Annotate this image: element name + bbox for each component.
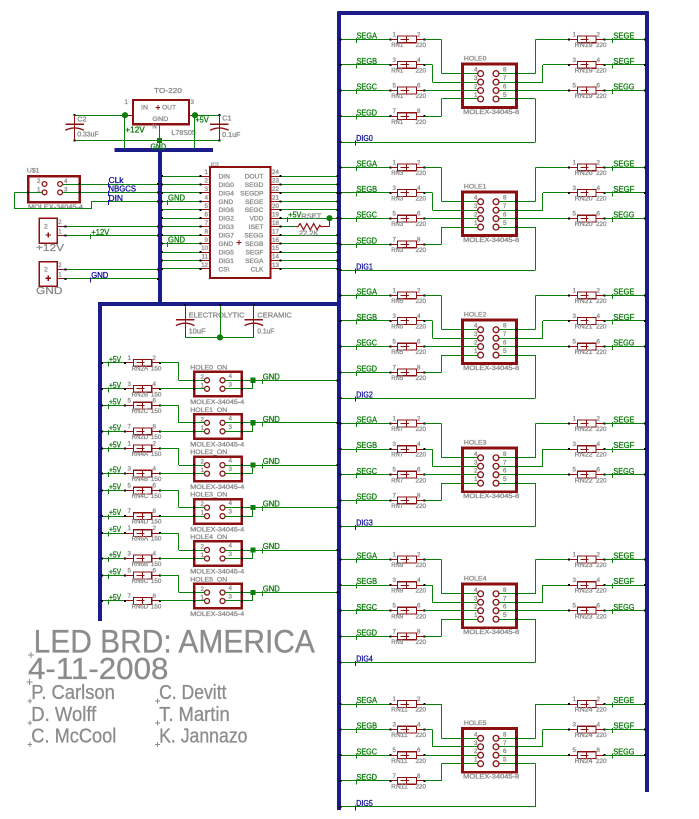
svg-text:RN11: RN11 <box>391 708 408 714</box>
svg-text:3: 3 <box>393 185 397 192</box>
svg-text:220: 220 <box>416 171 427 177</box>
wire: HOLE0 pin5 to DIG0 net <box>340 98 536 143</box>
wire: HOLE2 pin5 to DIG2 net <box>340 354 536 399</box>
svg-text:MOLEX-34045-8: MOLEX-34045-8 <box>463 237 520 244</box>
svg-text:220: 220 <box>416 222 427 228</box>
resistor RN1 220 (pins 7-8) group 0 <box>340 108 427 126</box>
svg-text:7: 7 <box>393 773 397 780</box>
svg-text:SEGA: SEGA <box>357 160 378 169</box>
svg-text:220: 220 <box>596 733 607 739</box>
svg-text:SEGD: SEGD <box>357 493 378 502</box>
svg-text:6: 6 <box>205 211 209 218</box>
svg-text:4: 4 <box>229 585 233 592</box>
wire: HOLE1 pin6 to RN20 row3 <box>499 218 569 220</box>
bus: left box top edge <box>98 302 341 306</box>
junction: cap ground node <box>217 334 223 340</box>
svg-text:220: 220 <box>596 197 607 203</box>
svg-text:RN6C: RN6C <box>132 579 149 585</box>
credit text C. Devitt <box>155 681 227 704</box>
svg-text:ISET: ISET <box>249 224 264 231</box>
svg-text:6: 6 <box>503 748 507 755</box>
svg-text:MOLEX-34045-4: MOLEX-34045-4 <box>190 611 244 618</box>
svg-text:5: 5 <box>128 398 132 405</box>
label SEGG group 1 <box>612 211 634 222</box>
label SEGE group 1 <box>612 160 634 171</box>
svg-text:4: 4 <box>597 441 601 448</box>
svg-text:SEGE: SEGE <box>613 552 634 561</box>
label +12V on wire <box>90 228 110 239</box>
svg-text:19: 19 <box>272 211 279 218</box>
svg-text:RN11: RN11 <box>391 733 408 739</box>
svg-text:6: 6 <box>417 339 421 346</box>
label +5V on RN2A wire <box>108 355 122 366</box>
wire: HOLE1 pin5 to DIG1 net <box>340 226 536 271</box>
wire: HOLE0_ON pin4/pin3 to GND junction and bus <box>225 379 339 390</box>
svg-text:SEGC: SEGC <box>357 339 378 348</box>
svg-text:1: 1 <box>573 416 577 423</box>
svg-text:RN2C: RN2C <box>132 409 149 415</box>
svg-text:3: 3 <box>229 509 233 516</box>
svg-text:2: 2 <box>153 355 157 362</box>
svg-text:8: 8 <box>205 228 209 235</box>
svg-text:RN9: RN9 <box>391 589 404 595</box>
resistor RN6B 150 (pins 3-4) <box>101 551 162 569</box>
svg-text:5: 5 <box>573 747 577 754</box>
svg-text:SEGC: SEGC <box>357 747 378 756</box>
label SEGC group 4 <box>356 603 377 614</box>
resistor RN3 220 (pins 5-6) group 1 <box>340 211 427 229</box>
wire: to HOLE4_ON pin1 <box>160 558 205 560</box>
svg-text:HOLE4_ON: HOLE4_ON <box>190 534 227 541</box>
svg-text:MOLEX-34045-8: MOLEX-34045-8 <box>463 493 520 500</box>
wire: HOLE3 pin7 to RN22 row2 <box>499 449 569 467</box>
svg-text:2: 2 <box>597 696 601 703</box>
svg-text:RN11: RN11 <box>391 785 408 791</box>
wire: HOLE2 pin7 to RN21 row2 <box>499 320 569 339</box>
svg-text:K. Jannazo: K. Jannazo <box>159 725 247 748</box>
svg-text:5: 5 <box>573 467 577 474</box>
svg-text:1: 1 <box>58 228 62 235</box>
svg-text:SEGB: SEGB <box>357 313 378 322</box>
svg-text:11: 11 <box>202 254 209 261</box>
svg-text:DIG2: DIG2 <box>356 390 373 399</box>
svg-text:6: 6 <box>503 84 507 91</box>
svg-text:4: 4 <box>474 731 478 738</box>
svg-text:CLK: CLK <box>251 266 264 273</box>
svg-text:5: 5 <box>503 757 507 764</box>
label SEGD group 4 <box>356 629 377 640</box>
svg-text:DIG3: DIG3 <box>356 518 373 527</box>
svg-text:MOLEX-34045-4: MOLEX-34045-4 <box>190 526 244 533</box>
svg-text:RN23: RN23 <box>575 563 594 569</box>
svg-text:5: 5 <box>128 483 132 490</box>
svg-text:HOLE0_ON: HOLE0_ON <box>190 364 227 371</box>
title text LED BRD: AMERICA <box>28 624 315 660</box>
svg-text:12: 12 <box>201 262 208 269</box>
svg-text:16: 16 <box>272 237 279 244</box>
svg-text:L78S05: L78S05 <box>171 128 196 137</box>
svg-text:RN9: RN9 <box>391 640 404 646</box>
svg-text:3: 3 <box>191 99 195 106</box>
svg-text:4: 4 <box>597 722 601 729</box>
wire: to HOLE5_ON pin1 <box>160 600 205 602</box>
label SEGA group 5 <box>356 696 378 707</box>
connector HOLE0 MOLEX-34045-8 <box>463 56 520 116</box>
connector U$1 MOLEX-34045-4 <box>27 168 84 212</box>
label SEGD group 2 <box>356 364 377 375</box>
svg-text:3: 3 <box>393 722 397 729</box>
label SEGF group 1 <box>612 185 635 196</box>
svg-text:SEGF: SEGF <box>613 185 634 194</box>
svg-text:RN1: RN1 <box>391 43 404 49</box>
svg-text:150: 150 <box>151 494 162 500</box>
svg-text:220: 220 <box>416 504 427 510</box>
resistor RN4C 150 (pins 5-6) <box>101 483 162 501</box>
label DIG0 <box>355 134 373 145</box>
svg-text:+5V: +5V <box>109 381 122 390</box>
svg-text:DIG4: DIG4 <box>219 190 235 197</box>
svg-text:3: 3 <box>573 577 577 584</box>
junction GND at HOLE3_ON <box>250 505 255 510</box>
resistor RN23 220 (pins 5-6) group 4 <box>568 603 646 621</box>
svg-text:3: 3 <box>393 57 397 64</box>
svg-text:DIG5: DIG5 <box>219 250 235 257</box>
svg-text:7: 7 <box>393 628 397 635</box>
svg-text:220: 220 <box>416 248 427 254</box>
svg-text:3: 3 <box>573 722 577 729</box>
svg-text:3: 3 <box>128 466 132 473</box>
svg-text:+5V: +5V <box>109 441 122 450</box>
IC U2 LED display driver (24-pin) <box>201 162 281 278</box>
svg-text:RN4D: RN4D <box>132 520 149 526</box>
svg-text:+12V: +12V <box>125 125 145 134</box>
label +5V on RN4A wire <box>108 441 122 452</box>
svg-text:220: 220 <box>416 589 427 595</box>
svg-text:3: 3 <box>573 441 577 448</box>
svg-text:SEGG: SEGG <box>613 339 634 348</box>
svg-text:8: 8 <box>503 67 507 74</box>
svg-text:0.33uF: 0.33uF <box>77 132 99 139</box>
svg-text:220: 220 <box>596 325 607 331</box>
credit text C. McCool <box>27 725 116 748</box>
svg-text:DIG0: DIG0 <box>356 134 373 143</box>
wire: HOLE3 pin6 to RN22 row3 <box>499 474 569 476</box>
svg-text:220: 220 <box>416 427 427 433</box>
label DIN <box>108 194 123 205</box>
svg-text:6: 6 <box>597 747 601 754</box>
wire: HOLE4 pin8 to RN23 row1 <box>499 559 569 595</box>
svg-text:18: 18 <box>272 220 279 227</box>
svg-text:6: 6 <box>417 467 421 474</box>
connector +12V (PINHD-1X2) <box>36 218 159 254</box>
svg-text:4: 4 <box>417 722 421 729</box>
svg-text:220: 220 <box>416 350 427 356</box>
wire: RN1 row2 to HOLE0 pin3 <box>424 64 478 83</box>
wire: RN0A-row to HOLE3_ON pin2 <box>160 490 205 509</box>
svg-text:SEGE: SEGE <box>245 199 264 206</box>
label SEGA group 4 <box>356 552 378 563</box>
svg-text:DIG1: DIG1 <box>219 258 235 265</box>
svg-text:1: 1 <box>573 552 577 559</box>
wire: NBGCS net U$1 pin3 to bus <box>63 191 160 193</box>
svg-text:0.1uF: 0.1uF <box>257 328 274 335</box>
svg-text:MOLEX-34045-4: MOLEX-34045-4 <box>28 204 83 211</box>
svg-text:4: 4 <box>64 178 68 185</box>
svg-text:SEGA: SEGA <box>245 258 264 265</box>
svg-text:8: 8 <box>503 731 507 738</box>
label GND at HOLE0_ON <box>262 372 280 383</box>
svg-text:3: 3 <box>474 203 478 210</box>
svg-text:RN20: RN20 <box>575 197 594 203</box>
resistor RN23 220 (pins 3-4) group 4 <box>568 577 646 595</box>
resistor RN1 220 (pins 5-6) group 0 <box>340 83 427 101</box>
svg-text:+5V: +5V <box>109 355 122 364</box>
svg-text:2: 2 <box>417 159 421 166</box>
resistor RN3 220 (pins 1-2) group 1 <box>340 159 427 177</box>
svg-text:GND: GND <box>219 241 234 248</box>
label GND on IC pin9 wire <box>167 236 185 247</box>
svg-text:1: 1 <box>58 272 62 279</box>
svg-text:RN9: RN9 <box>391 614 404 620</box>
svg-text:RN5: RN5 <box>391 299 404 305</box>
svg-text:SEGC: SEGC <box>357 83 378 92</box>
label SEGC group 2 <box>356 339 377 350</box>
svg-text:7: 7 <box>503 740 507 747</box>
svg-text:2: 2 <box>153 525 157 532</box>
wire: DIN net U$1 pin1 around to bus <box>14 191 159 209</box>
svg-text:2: 2 <box>205 178 209 185</box>
svg-text:+12V: +12V <box>91 228 110 237</box>
svg-text:8: 8 <box>503 587 507 594</box>
svg-text:8: 8 <box>503 451 507 458</box>
svg-text:6: 6 <box>597 339 601 346</box>
svg-text:SEGC: SEGC <box>357 467 378 476</box>
svg-text:DIN: DIN <box>219 173 231 180</box>
svg-text:7: 7 <box>393 236 397 243</box>
svg-text:4: 4 <box>474 451 478 458</box>
label DIG3 <box>355 518 373 529</box>
svg-text:6: 6 <box>417 603 421 610</box>
wire: RN1 row3 to HOLE0 pin2 <box>424 90 478 92</box>
svg-text:SEGD: SEGD <box>357 364 378 373</box>
svg-text:220: 220 <box>416 453 427 459</box>
label +5V on VDD wire <box>287 210 302 222</box>
svg-text:3: 3 <box>573 57 577 64</box>
svg-text:RN21: RN21 <box>575 325 594 331</box>
svg-text:MOLEX-34045-4: MOLEX-34045-4 <box>190 442 244 449</box>
svg-text:2: 2 <box>474 748 478 755</box>
wire: HOLE2 pin8 to RN21 row1 <box>499 295 569 331</box>
svg-text:7: 7 <box>128 423 132 430</box>
wire: to HOLE1_ON pin1 <box>160 430 205 432</box>
junction GND at HOLE2_ON <box>250 463 255 468</box>
svg-text:8: 8 <box>153 423 157 430</box>
wire: RN0A-row to HOLE4_ON pin2 <box>160 533 205 551</box>
svg-text:150: 150 <box>151 579 162 585</box>
svg-text:2: 2 <box>597 287 601 294</box>
voltage regulator U2 L78S05 TO-220 <box>124 86 199 148</box>
svg-text:HOLE2_ON: HOLE2_ON <box>190 449 227 456</box>
svg-text:5: 5 <box>573 83 577 90</box>
svg-text:2: 2 <box>201 459 205 466</box>
svg-text:2: 2 <box>201 544 205 551</box>
svg-text:5: 5 <box>503 612 507 619</box>
svg-text:1: 1 <box>205 169 209 176</box>
svg-text:SEGD: SEGD <box>245 182 264 189</box>
svg-text:ELECTROLYTIC: ELECTROLYTIC <box>189 312 245 319</box>
connector HOLE5 MOLEX-34045-8 <box>463 720 520 780</box>
svg-text:SEGB: SEGB <box>357 185 378 194</box>
svg-text:3: 3 <box>128 551 132 558</box>
svg-text:3: 3 <box>393 313 397 320</box>
svg-text:220: 220 <box>416 325 427 331</box>
resistor RN5 220 (pins 1-2) group 2 <box>340 287 427 305</box>
junction GND at HOLE0_ON <box>250 378 255 383</box>
svg-text:GND: GND <box>91 271 108 280</box>
wire: RN7 row3 to HOLE3 pin2 <box>424 474 478 476</box>
svg-text:2: 2 <box>153 440 157 447</box>
svg-text:5: 5 <box>503 220 507 227</box>
resistor RN5 220 (pins 7-8) group 2 <box>340 364 427 382</box>
svg-text:5: 5 <box>393 467 397 474</box>
wire: to HOLE0_ON pin1 <box>160 388 205 390</box>
svg-text:3: 3 <box>474 459 478 466</box>
svg-text:HOLE5: HOLE5 <box>464 720 487 727</box>
svg-text:RN7: RN7 <box>391 504 404 510</box>
svg-text:5: 5 <box>205 203 209 210</box>
svg-text:+5V: +5V <box>288 210 302 219</box>
svg-text:DIG5: DIG5 <box>356 799 373 808</box>
wire: HOLE4 pin5 to DIG4 net <box>340 618 536 663</box>
wire: HOLE1 pin8 to RN20 row1 <box>499 167 569 203</box>
svg-text:GND: GND <box>168 193 185 202</box>
svg-text:RN19: RN19 <box>575 94 594 100</box>
svg-text:150: 150 <box>151 409 162 415</box>
svg-text:4: 4 <box>474 195 478 202</box>
bus: right box left edge <box>337 11 341 810</box>
wire: RN3 row2 to HOLE1 pin3 <box>424 192 478 211</box>
svg-text:2: 2 <box>474 468 478 475</box>
svg-text:6: 6 <box>153 483 157 490</box>
wire: to HOLE3_ON pin1 <box>160 515 205 517</box>
wire: HOLE4 pin6 to RN23 row3 <box>499 610 569 612</box>
wire: HOLE5_ON pin4/pin3 to GND junction and bus <box>225 592 339 603</box>
svg-text:2: 2 <box>417 31 421 38</box>
wire: HOLE5 pin5 to DIG5 net <box>340 763 536 808</box>
svg-text:6: 6 <box>417 747 421 754</box>
wires: IC right pins to right box bus <box>279 175 338 270</box>
resistor RN22 220 (pins 3-4) group 3 <box>568 441 646 459</box>
resistor RN5 220 (pins 3-4) group 2 <box>340 313 427 331</box>
svg-text:RSET: RSET <box>301 212 321 221</box>
label SEGF group 2 <box>612 313 635 324</box>
svg-text:6: 6 <box>597 211 601 218</box>
wire: RN0A-row to HOLE5_ON pin2 <box>160 575 205 594</box>
connector HOLE3 MOLEX-34045-8 <box>463 440 520 500</box>
svg-text:6: 6 <box>417 211 421 218</box>
label SEGD group 1 <box>356 236 377 247</box>
svg-text:4: 4 <box>229 500 233 507</box>
svg-text:RN21: RN21 <box>575 350 594 356</box>
svg-text:220: 220 <box>416 120 427 126</box>
wire: HOLE0 pin6 to RN19 row3 <box>499 90 569 92</box>
svg-text:5: 5 <box>393 603 397 610</box>
svg-text:SEGF: SEGF <box>245 250 263 257</box>
svg-text:0.1uF: 0.1uF <box>222 132 240 139</box>
wire: RN9 row3 to HOLE4 pin2 <box>424 610 478 612</box>
svg-text:SEGF: SEGF <box>613 57 634 66</box>
resistor RN22 220 (pins 1-2) group 3 <box>568 416 646 434</box>
svg-text:SEGG: SEGG <box>613 747 634 756</box>
svg-text:7: 7 <box>503 595 507 602</box>
svg-text:HOLE0: HOLE0 <box>464 56 487 63</box>
label SEGB group 3 <box>356 441 377 452</box>
svg-text:RN20: RN20 <box>575 222 594 228</box>
svg-text:RN3: RN3 <box>391 197 404 203</box>
label SEGF group 5 <box>612 722 635 733</box>
resistor RN21 220 (pins 3-4) group 2 <box>568 313 646 331</box>
svg-text:RN1: RN1 <box>391 69 404 75</box>
svg-text:2: 2 <box>417 287 421 294</box>
label SEGE group 0 <box>612 31 634 42</box>
svg-text:5: 5 <box>573 339 577 346</box>
label GND at HOLE5_ON <box>262 585 280 596</box>
label SEGB group 2 <box>356 313 377 324</box>
resistor RN6D 150 (pins 7-8) <box>101 593 162 611</box>
svg-text:RN2A: RN2A <box>132 366 149 372</box>
date text 4-11-2008 <box>27 651 169 686</box>
wire: HOLE2 pin6 to RN21 row3 <box>499 346 569 348</box>
svg-text:1: 1 <box>128 440 132 447</box>
wire: HOLE5 pin8 to RN24 row1 <box>499 704 569 739</box>
label SEGE group 4 <box>612 552 634 563</box>
svg-text:C1: C1 <box>222 114 231 123</box>
svg-text:220: 220 <box>596 222 607 228</box>
resistor RN9 220 (pins 7-8) group 4 <box>340 628 427 646</box>
svg-text:5: 5 <box>128 568 132 575</box>
resistor RN11 220 (pins 3-4) group 5 <box>340 722 427 740</box>
svg-text:6: 6 <box>503 604 507 611</box>
capacitor C1 0.1uF <box>210 114 240 141</box>
svg-text:220: 220 <box>416 708 427 714</box>
svg-text:2: 2 <box>58 219 62 226</box>
svg-text:220: 220 <box>416 299 427 305</box>
svg-text:U$1: U$1 <box>27 168 40 175</box>
svg-text:P. Carlson: P. Carlson <box>31 681 115 704</box>
connector HOLE0_ON MOLEX-34045-4 <box>190 364 244 406</box>
credit text P. Carlson <box>27 681 114 704</box>
svg-text:2: 2 <box>58 262 62 269</box>
svg-text:6: 6 <box>597 603 601 610</box>
wire: RN3 row4 to HOLE1 pin1 <box>424 226 478 245</box>
wire: RN2A-row to HOLE0_ON pin2 <box>160 362 205 381</box>
junction +12V node <box>122 112 128 148</box>
svg-text:9: 9 <box>205 237 209 244</box>
svg-text:GND: GND <box>152 116 168 123</box>
svg-text:1: 1 <box>573 159 577 166</box>
svg-text:RN21: RN21 <box>575 299 594 305</box>
svg-text:22.2K: 22.2K <box>299 228 319 237</box>
label SEGA group 0 <box>356 31 378 42</box>
svg-text:10uF: 10uF <box>189 328 206 335</box>
svg-text:SEGG: SEGG <box>613 603 634 612</box>
svg-text:220: 220 <box>596 69 607 75</box>
wire: RN11 row3 to HOLE5 pin2 <box>424 754 478 756</box>
svg-text:HOLE4: HOLE4 <box>464 576 487 583</box>
wire: HOLE3 pin8 to RN22 row1 <box>499 423 569 459</box>
wire: RN5 row4 to HOLE2 pin1 <box>424 354 478 373</box>
svg-text:+5V: +5V <box>109 398 122 407</box>
